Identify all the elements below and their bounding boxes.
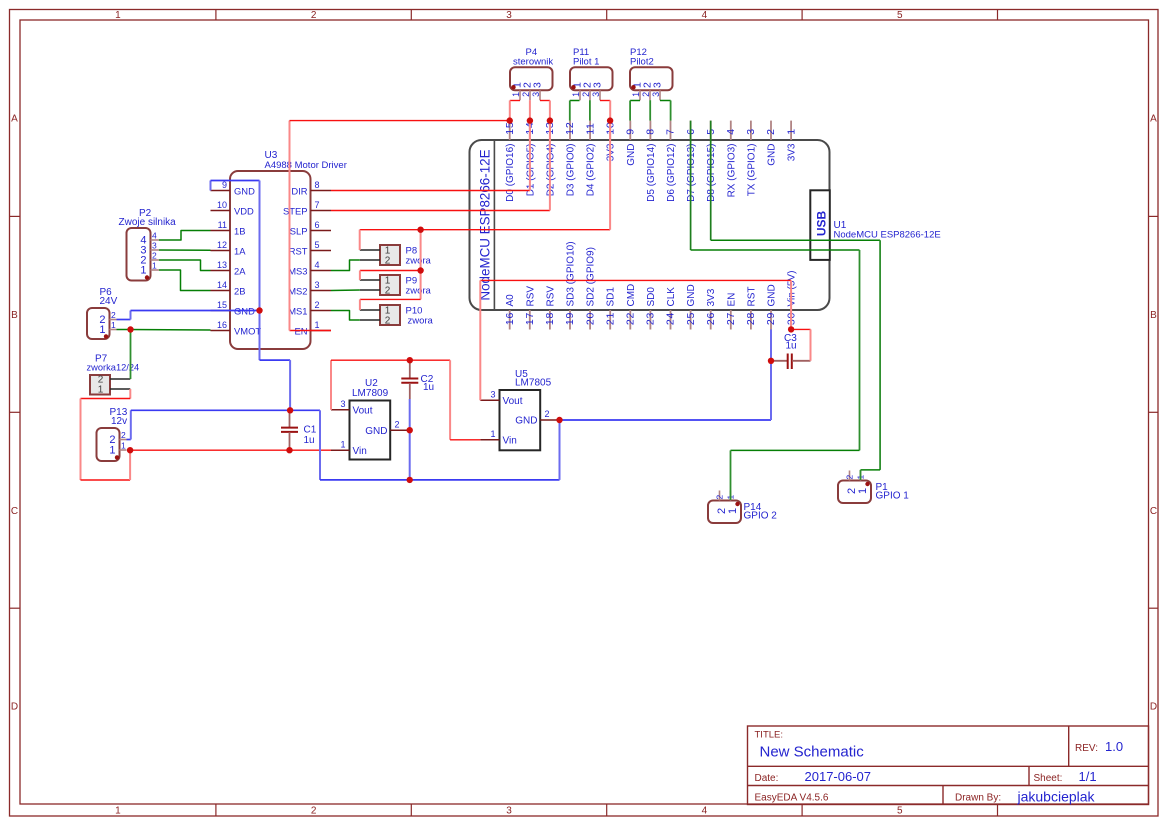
P1 pin 2 <box>849 471 851 481</box>
wire P11 pin2 to D4 <box>589 100 591 120</box>
svg-text:C: C <box>1150 506 1157 517</box>
title block row divider 2 <box>748 785 1149 787</box>
svg-text:D6 (GPIO12): D6 (GPIO12) <box>666 144 677 202</box>
P11 origin dot <box>571 85 575 89</box>
svg-text:2: 2 <box>385 256 391 267</box>
connector P8 zwora body <box>380 245 400 265</box>
svg-text:C: C <box>11 506 18 517</box>
svg-text:3V3: 3V3 <box>706 288 717 306</box>
wire P2 pin3 to U3 1A <box>159 249 211 251</box>
svg-text:7: 7 <box>665 128 677 135</box>
svg-text:New Schematic: New Schematic <box>760 744 865 761</box>
U1 pin 24 CLK (bottom) <box>670 310 672 330</box>
wire D8 to P1 pin1 <box>711 239 880 241</box>
svg-text:1: 1 <box>857 488 869 494</box>
svg-text:3: 3 <box>591 92 601 97</box>
svg-text:LM7809: LM7809 <box>352 388 389 399</box>
connector P14 GPIO 2 body <box>708 501 741 524</box>
P11 pin 3 <box>599 90 601 100</box>
U1 pin 10 3V3 (top) <box>609 121 611 140</box>
junction at 610.1,120.6 <box>607 117 613 123</box>
frame column tick 4 <box>801 10 803 21</box>
svg-text:1B: 1B <box>234 226 245 237</box>
svg-text:4: 4 <box>152 231 157 241</box>
connector P11 Pilot 1 body <box>570 67 613 90</box>
junction at 409.8,360.2 <box>407 357 413 363</box>
svg-text:1: 1 <box>111 320 116 330</box>
svg-text:1/1: 1/1 <box>1079 769 1097 784</box>
wire 3V3 branch to P10 pin1 <box>360 298 421 300</box>
P14 pin 2 <box>719 491 721 501</box>
junction at 409.7,479.9 <box>407 477 413 483</box>
P12 origin dot <box>631 85 635 89</box>
P13 origin dot <box>115 455 119 459</box>
U1 pin 22 CMD (bottom) <box>629 310 631 330</box>
P6 origin dot <box>104 334 108 338</box>
U3 pin 8 DIR (right) <box>311 190 332 192</box>
U1 USB box <box>810 190 830 260</box>
wire P12 pin3 to D6 <box>660 100 671 102</box>
svg-text:MS1: MS1 <box>288 306 307 317</box>
svg-text:4: 4 <box>702 10 708 21</box>
svg-text:1: 1 <box>115 806 121 817</box>
svg-text:3V3: 3V3 <box>606 143 617 161</box>
wire GND U5 riser <box>559 420 561 480</box>
svg-text:A: A <box>11 114 18 125</box>
wire 3V3 to P8 pin1 <box>359 230 361 250</box>
P10 pin 1 <box>360 309 380 311</box>
svg-text:TX (GPIO1): TX (GPIO1) <box>746 144 757 197</box>
svg-text:3: 3 <box>152 241 157 251</box>
P10 pin 2 <box>360 319 380 321</box>
svg-text:1u: 1u <box>786 341 797 352</box>
wire DIR-D1 net vertical to pin14 <box>529 121 531 191</box>
svg-text:2: 2 <box>311 806 317 817</box>
title block DrawnBy divider <box>942 786 944 805</box>
svg-text:D: D <box>11 702 18 713</box>
svg-text:1: 1 <box>140 265 146 277</box>
svg-text:DIR: DIR <box>291 186 307 197</box>
U1 pin 13 D2 (GPIO4) (top) <box>549 121 551 140</box>
wire P12 pin1 to GND pin9 <box>630 100 640 102</box>
svg-text:2A: 2A <box>234 266 246 277</box>
connector P4 sterownik body <box>510 67 553 90</box>
connector P1 GPIO 1 body <box>838 481 871 504</box>
svg-text:2: 2 <box>121 430 126 440</box>
svg-text:2: 2 <box>545 409 550 419</box>
U3 pin 9 GND (left) <box>211 190 231 192</box>
svg-text:23: 23 <box>645 312 657 325</box>
svg-text:Date:: Date: <box>755 773 779 784</box>
svg-text:jakubcieplak: jakubcieplak <box>1017 788 1096 804</box>
svg-text:2: 2 <box>395 420 400 430</box>
frame row tick 3 <box>10 607 21 609</box>
U5 pin 3 Vout <box>480 399 499 401</box>
svg-text:2: 2 <box>715 495 725 500</box>
svg-text:sterownik: sterownik <box>513 57 553 68</box>
U1 pin 23 SD0 (bottom) <box>649 310 651 330</box>
P2 pin 3 <box>151 249 160 251</box>
svg-text:Vin: Vin <box>503 436 517 447</box>
wire 24V down to P7 pin2 <box>130 330 132 380</box>
svg-text:SLP: SLP <box>290 226 308 237</box>
svg-text:B: B <box>1150 310 1157 321</box>
svg-text:5: 5 <box>315 240 320 250</box>
P1 pin 1 <box>860 471 862 481</box>
svg-text:1: 1 <box>490 429 495 439</box>
svg-text:RSV: RSV <box>545 286 556 307</box>
svg-text:SD3 (GPIO10): SD3 (GPIO10) <box>566 241 577 306</box>
svg-text:3: 3 <box>531 92 541 97</box>
svg-text:5: 5 <box>897 10 903 21</box>
junction at 771,360.8 <box>768 358 774 364</box>
wire GND U3 pin9 bracket <box>210 181 212 191</box>
svg-text:25: 25 <box>685 312 697 325</box>
P11 pin 2 <box>589 90 591 100</box>
wire P11 pin3 to 3V3 pin10 <box>600 100 610 102</box>
svg-text:1u: 1u <box>304 435 315 446</box>
svg-text:1: 1 <box>98 385 104 396</box>
svg-text:16: 16 <box>217 320 227 330</box>
svg-text:4: 4 <box>702 806 708 817</box>
P6 pin 2 <box>110 319 117 321</box>
wire STEP-D2 net horizontal <box>331 210 550 212</box>
svg-text:REV:: REV: <box>1075 743 1098 754</box>
wire P4 pin2 to D1 <box>529 100 531 120</box>
wire 3V3 spine vertical <box>420 230 422 300</box>
svg-text:Vin: Vin <box>353 446 367 457</box>
U3 pin 6 SLP (right) <box>311 230 332 232</box>
svg-text:3: 3 <box>490 390 495 400</box>
svg-text:1u: 1u <box>423 382 434 393</box>
U1 pin 11 D4 (GPIO2) (top) <box>589 121 591 140</box>
svg-text:STEP: STEP <box>283 206 308 217</box>
op-amp U5 LM7805 body <box>500 390 541 450</box>
U1 pin 20 SD2 (GPIO9) (bottom) <box>589 310 591 330</box>
svg-text:18: 18 <box>544 312 556 325</box>
wire D7 to P14 pin1 <box>691 249 860 251</box>
svg-text:1: 1 <box>727 508 739 514</box>
junction at 130.5,329.5 <box>127 326 133 332</box>
svg-text:A: A <box>1150 114 1157 125</box>
svg-text:2: 2 <box>765 128 777 135</box>
svg-text:GPIO 1: GPIO 1 <box>876 491 910 502</box>
wire 3V3 rail horizontal <box>360 229 610 231</box>
junction at 259.5,310.5 <box>256 307 262 313</box>
wire 3V3 vertical to pin10 <box>609 121 611 230</box>
svg-text:EasyEDA V4.5.6: EasyEDA V4.5.6 <box>755 792 829 803</box>
svg-text:CMD: CMD <box>626 284 637 307</box>
wire GND P6 pin2 to U3 pin15 <box>117 319 131 321</box>
wire 9V U2 Vout riser <box>330 360 332 410</box>
U3 pin 5 RST (right) <box>311 250 332 252</box>
U3 pin 12 1A (left) <box>211 250 231 252</box>
connector P6 24V body <box>87 308 110 339</box>
svg-text:1: 1 <box>631 92 641 97</box>
U1 pin 2 GND (top) <box>770 121 772 140</box>
svg-text:D7 (GPIO13): D7 (GPIO13) <box>686 144 697 202</box>
U3 pin 3 MS2 (right) <box>311 290 332 292</box>
svg-text:22: 22 <box>625 312 637 325</box>
P7 pin 2 <box>110 378 130 380</box>
junction at 420.6,270.5 <box>417 267 423 273</box>
svg-text:1A: 1A <box>234 246 246 257</box>
P4 pin 2 <box>529 90 531 100</box>
U3 pin 11 1B (left) <box>211 230 231 232</box>
wire 3V3 branch to P9 pin1 <box>360 270 421 272</box>
svg-text:TITLE:: TITLE: <box>755 730 784 741</box>
title block row divider 1 <box>748 765 1149 767</box>
wire Vin5V horizontal through U1 <box>480 279 791 281</box>
svg-text:VDD: VDD <box>234 206 254 217</box>
wire D8 vertical through U1 <box>710 121 712 241</box>
svg-text:3: 3 <box>532 82 544 88</box>
P13 pin 1 <box>120 449 127 451</box>
svg-text:Pilot 1: Pilot 1 <box>573 57 599 68</box>
svg-text:2: 2 <box>385 316 391 327</box>
U1 pin 7 D6 (GPIO12) (top) <box>670 121 672 140</box>
U1 pin 19 SD3 (GPIO10) (bottom) <box>569 310 571 330</box>
frame row tick 2 <box>10 411 21 413</box>
svg-text:1: 1 <box>571 92 581 97</box>
wire P2 pin4 to U3 1B <box>159 231 211 241</box>
wire 9V down to U5 Vin <box>449 360 451 440</box>
junction at 290.1,410.3 <box>287 407 293 413</box>
wire P2 pin2 to U3 2A <box>159 260 211 271</box>
wire D7 vertical through U1 <box>690 121 692 250</box>
op-amp U2 LM7809 body <box>350 401 391 460</box>
P1 origin dot <box>865 482 869 486</box>
U3 pin 13 2A (left) <box>211 270 231 272</box>
svg-text:GND: GND <box>626 144 637 166</box>
svg-text:3: 3 <box>652 82 664 88</box>
svg-text:9: 9 <box>625 128 637 135</box>
U1 pin 8 D5 (GPIO14) (top) <box>649 121 651 140</box>
svg-text:RST: RST <box>289 246 308 257</box>
wire 24V P6 pin1 to U3 VMOT <box>117 329 211 332</box>
junction at 559.5,420 <box>556 417 562 423</box>
svg-text:10: 10 <box>217 200 227 210</box>
svg-text:2: 2 <box>581 92 591 97</box>
U5 pin 2 GND <box>540 419 559 421</box>
svg-text:2: 2 <box>315 300 320 310</box>
svg-text:8: 8 <box>645 128 657 135</box>
svg-text:GND: GND <box>767 144 778 166</box>
svg-text:zwora: zwora <box>408 316 434 327</box>
U1 left divider line <box>493 141 495 309</box>
wire GND C2 vertical <box>409 399 411 480</box>
svg-text:1: 1 <box>340 440 345 450</box>
junction at 289.5,450.2 <box>286 447 292 453</box>
svg-text:GND: GND <box>234 186 255 197</box>
svg-text:Pilot2: Pilot2 <box>630 57 654 68</box>
P7 pin 1 <box>110 388 130 390</box>
svg-text:D: D <box>1150 702 1157 713</box>
svg-text:GND: GND <box>365 426 387 437</box>
P4 pin 3 <box>539 90 541 100</box>
P8 pin 1 <box>360 249 380 251</box>
wire EN-D0 net horizontal at EN row <box>290 330 332 332</box>
svg-text:7: 7 <box>315 200 320 210</box>
svg-text:3: 3 <box>340 399 345 409</box>
frame column tick 1 <box>215 10 217 21</box>
svg-text:2: 2 <box>111 310 116 320</box>
svg-text:1: 1 <box>115 10 121 21</box>
wire GND jog below U3 <box>260 359 291 361</box>
svg-text:zwora: zwora <box>406 256 432 267</box>
svg-text:17: 17 <box>524 312 536 325</box>
wire P2 pin1 to U3 2B <box>159 270 211 291</box>
title block box <box>748 726 1149 805</box>
svg-text:1.0: 1.0 <box>1105 739 1123 754</box>
svg-text:C1: C1 <box>304 425 317 436</box>
svg-text:2: 2 <box>152 251 157 261</box>
svg-text:USB: USB <box>815 211 829 237</box>
junction at 130.1,450.2 <box>127 447 133 453</box>
U1 pin 30 Vin (5V) (bottom) <box>790 310 792 330</box>
U1 pin 26 3V3 (bottom) <box>710 310 712 330</box>
svg-text:Vout: Vout <box>353 406 373 417</box>
wire EN-D0 net vertical through U3 <box>289 121 291 331</box>
U1 pin 27 EN (bottom) <box>730 310 732 330</box>
svg-text:D0 (GPIO16): D0 (GPIO16) <box>505 144 516 202</box>
svg-text:6: 6 <box>315 220 320 230</box>
svg-text:3: 3 <box>592 82 604 88</box>
U1 pin 21 SD1 (bottom) <box>609 310 611 330</box>
svg-text:SD1: SD1 <box>606 287 617 307</box>
P2 origin dot <box>145 275 149 279</box>
connector P2 Zwoje silnika body <box>127 228 151 281</box>
svg-text:3: 3 <box>745 128 757 135</box>
svg-text:D8 (GPIO15): D8 (GPIO15) <box>706 144 717 202</box>
svg-text:Vout: Vout <box>503 396 523 407</box>
svg-text:2: 2 <box>845 475 855 480</box>
P13 pin 2 <box>120 439 127 441</box>
svg-text:3: 3 <box>506 10 512 21</box>
U1 pin 1 3V3 (top) <box>790 121 792 140</box>
P4 pin 1 <box>519 90 521 100</box>
U3 pin 7 STEP (right) <box>311 210 332 212</box>
svg-text:1: 1 <box>109 445 115 457</box>
wire P11 pin1 to D3 <box>570 100 580 102</box>
junction at 529.9,120.6 <box>527 117 533 123</box>
svg-text:1: 1 <box>152 261 157 271</box>
U1 pin 28 RST (bottom) <box>750 310 752 330</box>
P2 pin 2 <box>151 259 160 261</box>
connector P10 zwora body <box>380 305 400 325</box>
U3 pin 2 MS1 (right) <box>311 310 332 312</box>
U1 pin 18 RSV (bottom) <box>549 310 551 330</box>
svg-text:4: 4 <box>315 260 320 270</box>
U1 pin 25 GND (bottom) <box>690 310 692 330</box>
U3 pin 14 2B (left) <box>211 290 231 292</box>
wire Vin5V to C3 right <box>791 328 810 330</box>
svg-text:GPIO 2: GPIO 2 <box>744 511 778 522</box>
wire STEP-D2 net vertical to pin13 <box>549 121 551 211</box>
svg-text:3V3: 3V3 <box>787 143 798 161</box>
U2 pin 3 Vout <box>331 409 350 411</box>
P4 origin dot <box>511 85 515 89</box>
wire P4 pin3 to D2 <box>540 100 550 102</box>
wire GND rail at C1 <box>127 439 131 441</box>
svg-text:3: 3 <box>315 280 320 290</box>
svg-text:LM7805: LM7805 <box>515 378 552 389</box>
U3 pin 1 EN (right) <box>311 330 332 332</box>
capacitor C2 <box>409 360 411 378</box>
svg-text:2: 2 <box>521 92 531 97</box>
U3 pin 4 MS3 (right) <box>311 270 332 272</box>
svg-text:19: 19 <box>564 312 576 325</box>
svg-text:CLK: CLK <box>666 287 677 307</box>
P2 pin 1 <box>151 269 160 271</box>
svg-text:20: 20 <box>584 312 596 325</box>
wire 12V rail to U2 Vin <box>130 449 331 451</box>
svg-text:RST: RST <box>746 287 757 307</box>
svg-text:B: B <box>11 310 18 321</box>
svg-text:SD0: SD0 <box>646 287 657 307</box>
svg-text:EN: EN <box>726 293 737 307</box>
svg-text:24: 24 <box>665 312 677 325</box>
svg-text:27: 27 <box>725 312 737 325</box>
U1 pin 17 RSV (bottom) <box>529 310 531 330</box>
svg-text:3: 3 <box>651 92 661 97</box>
wire MS1 to P10 pin2 <box>331 311 360 321</box>
wire GND U5 to pin29 <box>560 419 772 421</box>
svg-text:9: 9 <box>222 180 227 190</box>
P9 pin 1 <box>360 279 380 281</box>
U2 pin 2 GND <box>390 429 410 431</box>
svg-text:GND: GND <box>686 284 697 306</box>
frame column tick 5 <box>997 10 999 21</box>
wire DIR-D1 net horizontal <box>331 190 530 192</box>
svg-text:GND: GND <box>515 416 537 427</box>
P2 pin 4 <box>151 239 160 241</box>
svg-text:16: 16 <box>504 312 516 325</box>
svg-text:11: 11 <box>584 122 596 135</box>
svg-text:NodeMCU ESP8266-12E: NodeMCU ESP8266-12E <box>834 230 941 241</box>
U1 pin 4 RX (GPIO3) (top) <box>730 121 732 140</box>
U3 pin 16 VMOT (left) <box>211 330 231 332</box>
svg-text:MS3: MS3 <box>288 266 307 277</box>
svg-text:GND: GND <box>767 284 778 306</box>
svg-text:2017-06-07: 2017-06-07 <box>805 769 872 784</box>
svg-text:12: 12 <box>217 240 227 250</box>
P14 pin 1 <box>730 491 732 501</box>
svg-text:D3 (GPIO0): D3 (GPIO0) <box>566 144 577 197</box>
title block Sheet divider <box>1028 766 1030 785</box>
transistor U3 A4988 Motor Driver body <box>230 171 311 349</box>
svg-text:A0: A0 <box>505 294 516 307</box>
svg-text:SD2 (GPIO9): SD2 (GPIO9) <box>586 247 597 306</box>
wire Vin5V vertical to U5 Vout <box>479 280 481 400</box>
svg-text:15: 15 <box>217 300 227 310</box>
svg-text:Drawn By:: Drawn By: <box>955 792 1001 803</box>
junction at 791.1,329.4 <box>788 326 794 332</box>
P11 pin 1 <box>579 90 581 100</box>
U1 pin 5 D8 (GPIO15) (top) <box>710 121 712 140</box>
P12 pin 1 <box>639 90 641 100</box>
svg-text:VMOT: VMOT <box>234 326 261 337</box>
svg-text:4: 4 <box>725 128 737 135</box>
svg-text:29: 29 <box>765 312 777 325</box>
svg-text:Sheet:: Sheet: <box>1034 773 1063 784</box>
U1 pin 12 D3 (GPIO0) (top) <box>569 121 571 140</box>
wire Vin5V vertical at pin30 <box>790 280 792 329</box>
U1 pin 6 D7 (GPIO13) (top) <box>690 121 692 140</box>
svg-text:RSV: RSV <box>525 286 536 307</box>
junction at 549.9,120.6 <box>547 117 553 123</box>
svg-text:13: 13 <box>217 260 227 270</box>
